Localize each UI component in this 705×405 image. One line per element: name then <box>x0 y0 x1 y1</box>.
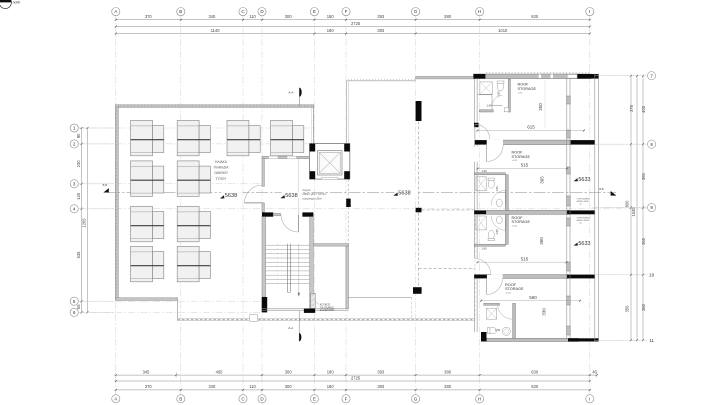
party wall units 2-3 <box>474 210 594 214</box>
svg-text:G: G <box>414 9 418 14</box>
grid bubbles bottom A-I <box>112 395 594 403</box>
party wall units 1-2 <box>475 140 595 145</box>
solar panel cluster row1 col2 <box>177 120 210 155</box>
vertical structural grid lines A-I <box>116 14 590 397</box>
unit3 bath south wall <box>474 244 505 246</box>
unit4 south-west column <box>481 332 487 342</box>
svg-text:ΕΞΑΕΡΙΣΜΟ: ΕΞΑΕΡΙΣΜΟ <box>320 309 335 312</box>
unit1 bath dim 180 <box>497 91 501 97</box>
svg-text:11: 11 <box>649 338 654 343</box>
lobby south wall segment <box>273 213 280 216</box>
unit block outer balcony wall <box>595 74 599 342</box>
svg-text:5638: 5638 <box>225 193 237 199</box>
svg-text:ΔΑΠΕΔΟ ΜΠΑΛ.: ΔΑΠΕΔΟ ΜΠΑΛ. <box>577 200 590 203</box>
svg-text:365: 365 <box>641 237 646 245</box>
svg-text:2: 2 <box>73 142 76 147</box>
elevator corner column SE <box>344 171 350 179</box>
svg-text:7: 7 <box>650 73 653 78</box>
unit1 width dim <box>477 125 586 132</box>
svg-text:5μ²: 5μ² <box>580 222 583 225</box>
svg-text:340: 340 <box>208 384 216 389</box>
unit2 bath east wall <box>505 175 508 211</box>
left dimension line segments <box>81 127 83 313</box>
unit4 entry door gap <box>487 274 503 279</box>
unit2 bath dim 165 <box>495 186 499 192</box>
unit1 sink <box>504 108 508 112</box>
dashed overhang line <box>419 268 475 270</box>
left terrace north wall <box>115 105 313 108</box>
right dimension line 3 <box>642 75 644 342</box>
unit3 shower <box>476 216 486 230</box>
svg-text:380: 380 <box>444 369 452 374</box>
left grid stubs <box>78 128 114 312</box>
top overall dimension line <box>115 21 591 28</box>
lobby north wall window 1 <box>269 156 279 159</box>
unit1 bath divider <box>477 95 492 110</box>
grid bubbles left 1-6 <box>70 124 78 317</box>
solar panel cluster row1 col1 <box>131 120 164 155</box>
unit north wall window slit 2 <box>550 74 553 78</box>
svg-text:1265: 1265 <box>82 218 87 228</box>
left terrace east edge <box>312 105 314 156</box>
stair door <box>281 215 298 232</box>
svg-text:A-A: A-A <box>288 326 293 330</box>
lobby south-east column <box>302 212 313 216</box>
svg-text:370: 370 <box>145 14 153 19</box>
stairwell west column <box>262 297 268 312</box>
svg-text:I: I <box>589 396 590 401</box>
svg-text:E: E <box>313 396 316 401</box>
upper terrace north edge <box>347 80 416 81</box>
elevator door <box>322 177 338 179</box>
svg-text:1140: 1140 <box>211 28 221 33</box>
unit1 bath east wall <box>508 79 510 112</box>
right dimension line 2 <box>636 75 638 342</box>
svg-text:515: 515 <box>521 256 529 261</box>
svg-text:5638: 5638 <box>285 193 297 199</box>
svg-text:560: 560 <box>529 295 537 300</box>
solar tiles label <box>214 160 230 181</box>
grid bubbles top A-I <box>112 8 594 16</box>
top dimension line groups <box>115 33 591 35</box>
svg-text:370: 370 <box>145 384 153 389</box>
svg-text:515: 515 <box>521 163 529 168</box>
solar panel cluster row1 col4 <box>271 120 304 155</box>
svg-text:380: 380 <box>641 303 646 311</box>
unit2 bath dim 160 <box>481 169 487 173</box>
svg-text:6: 6 <box>73 310 76 315</box>
glazing note unit3 <box>577 217 591 224</box>
unit1 height dim <box>538 81 545 128</box>
svg-text:1.60: 1.60 <box>495 328 501 332</box>
lobby west wall upper <box>262 159 264 187</box>
svg-text:630: 630 <box>531 14 539 19</box>
svg-text:330: 330 <box>542 308 547 316</box>
stairwell east wall <box>310 217 314 309</box>
unit4 label <box>505 283 524 295</box>
section A-A bottom marker <box>288 311 301 342</box>
unit north wall window slit 1 <box>538 74 541 78</box>
right dimension line 1 <box>630 75 632 342</box>
upper terrace west edge <box>346 81 348 144</box>
svg-text:ανοιχτοί: ανοιχτοί <box>302 189 311 192</box>
bottom extension ticks <box>176 372 597 378</box>
svg-text:630: 630 <box>531 384 539 389</box>
vent room north wall <box>313 244 348 247</box>
stair block south wall <box>262 309 349 311</box>
unit3 height dim <box>539 237 544 245</box>
svg-text:4: 4 <box>73 206 76 211</box>
unit3 sink <box>496 216 502 224</box>
level mark 5638 middle <box>280 192 303 199</box>
unit3 label <box>512 216 531 228</box>
svg-text:630: 630 <box>531 369 539 374</box>
lobby north wall window 2 <box>287 156 297 159</box>
unit2 bath north wall <box>474 173 505 175</box>
svg-text:STORAGE: STORAGE <box>518 87 537 91</box>
area text block <box>302 189 326 200</box>
unit4 sink <box>502 327 510 335</box>
svg-text:365: 365 <box>641 172 646 180</box>
svg-text:E: E <box>313 9 316 14</box>
unit4 bath east wall <box>513 303 516 338</box>
svg-text:1530: 1530 <box>631 207 636 217</box>
unit1 shower <box>480 82 492 94</box>
unit1 bath south wall <box>479 110 493 112</box>
svg-text:ΠΛΑΚΙΔΙΑ: ΠΛΑΚΙΔΙΑ <box>214 166 230 170</box>
svg-text:+0.561: +0.561 <box>512 225 518 227</box>
dashed east lobby edge <box>347 179 349 243</box>
svg-text:1: 1 <box>73 126 76 131</box>
section flag B-B right <box>599 187 616 196</box>
svg-text:365: 365 <box>540 176 545 184</box>
unit3 bath door <box>491 216 506 231</box>
svg-text:STORAGE: STORAGE <box>505 287 524 291</box>
dashed east walkway edge <box>474 215 476 319</box>
svg-text:393: 393 <box>377 14 385 19</box>
svg-text:180: 180 <box>327 28 335 33</box>
svg-text:STORAGE: STORAGE <box>512 220 531 224</box>
svg-text:ΗΛΙΑΚΑ: ΗΛΙΑΚΑ <box>215 160 228 164</box>
unit4 width dim <box>480 295 581 302</box>
solar panel cluster row4 col2 <box>177 246 210 281</box>
svg-text:+0.561: +0.561 <box>505 293 511 295</box>
svg-text:300: 300 <box>285 14 293 19</box>
stair walk line <box>298 244 300 297</box>
top dimension line segments <box>115 19 591 21</box>
unit4 bath door <box>498 304 514 320</box>
top dimension labels row3 <box>211 28 508 33</box>
unit3 bath dim 160 <box>481 246 487 250</box>
svg-text:5: 5 <box>73 299 76 304</box>
svg-text:180: 180 <box>327 369 335 374</box>
svg-text:615: 615 <box>527 125 535 130</box>
lobby north wall <box>262 156 310 158</box>
section line B-B <box>108 192 616 194</box>
solar panel cluster row2 col1 <box>131 161 164 196</box>
svg-text:A-A: A-A <box>288 90 293 94</box>
svg-text:800: 800 <box>625 200 630 208</box>
svg-text:393: 393 <box>377 28 385 33</box>
terrace wall on grid G hatched band <box>416 76 475 79</box>
elevator corner column NW <box>310 144 316 152</box>
elevator corner column SW <box>310 171 316 179</box>
top dimension labels row1 <box>145 14 539 19</box>
column east of lobby <box>346 199 351 207</box>
bottom dimension labels row1 <box>143 369 598 374</box>
solar panel cluster row4 col1 <box>131 246 164 281</box>
svg-text:north: north <box>13 1 21 5</box>
svg-text:360: 360 <box>539 237 544 245</box>
column on grid G row 9 <box>416 208 422 213</box>
svg-text:10: 10 <box>649 273 655 278</box>
unit1 bath door <box>492 95 502 105</box>
section flag B-B left <box>103 183 109 192</box>
bottom dimension line groups <box>115 389 591 391</box>
bottom dimension line segments <box>115 374 598 376</box>
svg-text:I: I <box>589 9 590 14</box>
svg-text:2725: 2725 <box>351 375 361 380</box>
lobby entrance door <box>245 185 263 203</box>
solar panel cluster row3 col2 <box>177 206 210 241</box>
svg-text:535: 535 <box>76 251 81 259</box>
unit north wall column E <box>577 74 599 79</box>
unit4 entry door <box>487 279 503 295</box>
svg-text:345: 345 <box>143 369 151 374</box>
svg-text:140: 140 <box>76 192 81 200</box>
left overall dimension line <box>82 127 89 313</box>
section A-A top marker <box>288 88 301 214</box>
vent label <box>315 302 334 313</box>
svg-text:H: H <box>478 9 481 14</box>
party wall units 3-4 <box>474 275 594 279</box>
unit2 label <box>512 151 531 163</box>
roof hatch above north wall <box>486 72 590 74</box>
svg-text:380: 380 <box>444 14 452 19</box>
svg-text:393: 393 <box>377 384 385 389</box>
svg-text:380: 380 <box>444 384 452 389</box>
unit2 entry door <box>487 145 504 162</box>
svg-text:495: 495 <box>216 369 224 374</box>
svg-text:110: 110 <box>249 384 256 389</box>
svg-text:9: 9 <box>650 205 653 210</box>
bottom overall dimension line <box>115 375 591 382</box>
unit3 toilet <box>488 231 494 241</box>
svg-text:5μ²: 5μ² <box>580 203 583 206</box>
svg-text:F: F <box>345 9 348 14</box>
unit2 bath door <box>491 190 506 205</box>
svg-text:355: 355 <box>625 305 630 313</box>
unit1 toilet <box>497 81 504 91</box>
solar panel cluster row3 col1 <box>131 206 164 241</box>
unit4 bath dim 160 <box>495 328 501 332</box>
elevator shaft outer wall <box>310 144 350 180</box>
stair treads <box>266 244 310 284</box>
column on grid G row 10 <box>413 287 422 294</box>
svg-text:G: G <box>414 396 418 401</box>
svg-text:F: F <box>345 396 348 401</box>
svg-text:5638: 5638 <box>398 190 410 196</box>
stair south column <box>304 309 315 313</box>
unit1 label <box>518 83 537 95</box>
svg-text:ΞΑΝΘΙΟΥ: ΞΑΝΘΙΟΥ <box>214 171 229 175</box>
lobby west wall lower <box>262 203 264 213</box>
elevator cab cross <box>319 152 340 173</box>
dashed walkway edge row 9 <box>422 209 475 211</box>
unit3 entry door <box>475 259 491 275</box>
svg-text:+5.64: +5.64 <box>518 92 523 94</box>
svg-text:1.60: 1.60 <box>486 104 492 108</box>
left terrace south step <box>176 300 178 318</box>
svg-text:STORAGE: STORAGE <box>512 155 531 159</box>
stairwell west wall <box>262 217 266 297</box>
grid bubbles right 7-11 <box>648 72 656 343</box>
glazing note unit2 <box>577 199 591 206</box>
unit2 entry door gap <box>487 140 503 145</box>
unit4 toilet <box>488 328 497 334</box>
right grid stubs <box>595 76 648 341</box>
level mark 5638 right <box>393 189 416 196</box>
left terrace west wall <box>115 105 118 300</box>
svg-text:1.65: 1.65 <box>495 186 499 192</box>
elevator cab <box>317 151 342 175</box>
svg-text:B: B <box>179 396 182 401</box>
unit2 toilet <box>488 178 494 188</box>
svg-text:1.80: 1.80 <box>497 91 501 97</box>
unit3 width dim <box>477 256 568 263</box>
stair central rail <box>288 244 291 293</box>
svg-text:180: 180 <box>327 384 335 389</box>
unit north wall column W <box>474 74 486 79</box>
unit2 height dim <box>540 176 545 184</box>
dashed edge on grid G lower <box>418 213 420 287</box>
elevator corner column NE <box>344 144 350 152</box>
ventilation shaft <box>311 293 316 308</box>
svg-text:300: 300 <box>285 369 293 374</box>
right dimension labels <box>625 104 646 312</box>
svg-text:5633: 5633 <box>578 177 590 183</box>
horizontal structural grid lines 1-11 <box>78 76 646 341</box>
vent room east wall <box>346 246 349 309</box>
bottom dimension labels row3 <box>145 384 539 389</box>
svg-text:B: B <box>179 9 182 14</box>
solar panel cluster row2 col2 <box>177 161 210 196</box>
unit2 width dim <box>477 163 569 170</box>
unit4 shower <box>486 308 496 319</box>
svg-text:375: 375 <box>629 104 634 112</box>
unit2 sink <box>496 199 502 207</box>
level mark 5633 upper <box>574 175 593 183</box>
svg-text:350: 350 <box>538 103 543 111</box>
unit2 shower <box>476 177 486 191</box>
north symbol <box>0 0 20 9</box>
svg-text:2725: 2725 <box>351 21 361 26</box>
svg-text:1.65: 1.65 <box>495 229 499 235</box>
unit1 entry door <box>475 124 490 139</box>
svg-text:5633: 5633 <box>578 241 590 247</box>
west wall column a <box>474 123 479 127</box>
svg-text:110: 110 <box>249 14 256 19</box>
svg-text:1.60: 1.60 <box>481 246 487 250</box>
solar panel cluster row1 col3 <box>227 120 260 155</box>
svg-text:2356m² χ2% = 720.5m²: 2356m² χ2% = 720.5m² <box>302 193 326 196</box>
left dimension labels <box>76 133 81 309</box>
svg-text:1.60: 1.60 <box>481 169 487 173</box>
unit4 height dim <box>542 308 547 316</box>
east terrace south edge <box>348 297 411 319</box>
svg-text:3: 3 <box>73 181 76 186</box>
svg-text:+0.561: +0.561 <box>512 160 518 162</box>
unit4 bath north wall <box>484 303 500 305</box>
unit block north wall <box>474 74 592 79</box>
svg-text:400: 400 <box>641 105 646 113</box>
level mark 5633 lower <box>574 239 593 247</box>
unit3 bath dim 165 <box>495 229 499 235</box>
svg-text:B-B: B-B <box>599 187 604 191</box>
lobby south-west column <box>262 212 273 216</box>
level mark 5638 left <box>220 192 243 199</box>
svg-text:180: 180 <box>327 14 335 19</box>
unit block south wall <box>487 338 599 341</box>
svg-text:90: 90 <box>76 133 81 138</box>
svg-text:8: 8 <box>650 142 653 147</box>
svg-text:1010: 1010 <box>498 28 508 33</box>
lower terrace south hatched edge <box>177 319 474 321</box>
privacy wall column on grid G <box>416 101 422 121</box>
unit block west wall <box>475 79 478 332</box>
dashed edge on grid G upper <box>418 121 420 207</box>
svg-text:H: H <box>478 396 481 401</box>
unit1 bath dim 160 <box>486 104 492 108</box>
svg-text:230: 230 <box>76 160 81 168</box>
svg-text:300: 300 <box>285 384 293 389</box>
svg-text:340: 340 <box>208 14 216 19</box>
svg-text:συγκρότημα 120m²: συγκρότημα 120m² <box>302 198 322 201</box>
small pillar at terrace edge <box>250 315 258 322</box>
unit north wall lintel <box>567 75 577 79</box>
svg-text:ΤΥΠΟΥ: ΤΥΠΟΥ <box>216 177 228 181</box>
unit3 bath east wall <box>505 214 508 244</box>
svg-text:393: 393 <box>377 369 385 374</box>
unit block inner east window wall <box>567 79 571 339</box>
left terrace south wall <box>115 298 177 301</box>
svg-text:ΔΑΠΕΔΟ ΜΠΑΛ.: ΔΑΠΕΔΟ ΜΠΑΛ. <box>577 219 590 222</box>
